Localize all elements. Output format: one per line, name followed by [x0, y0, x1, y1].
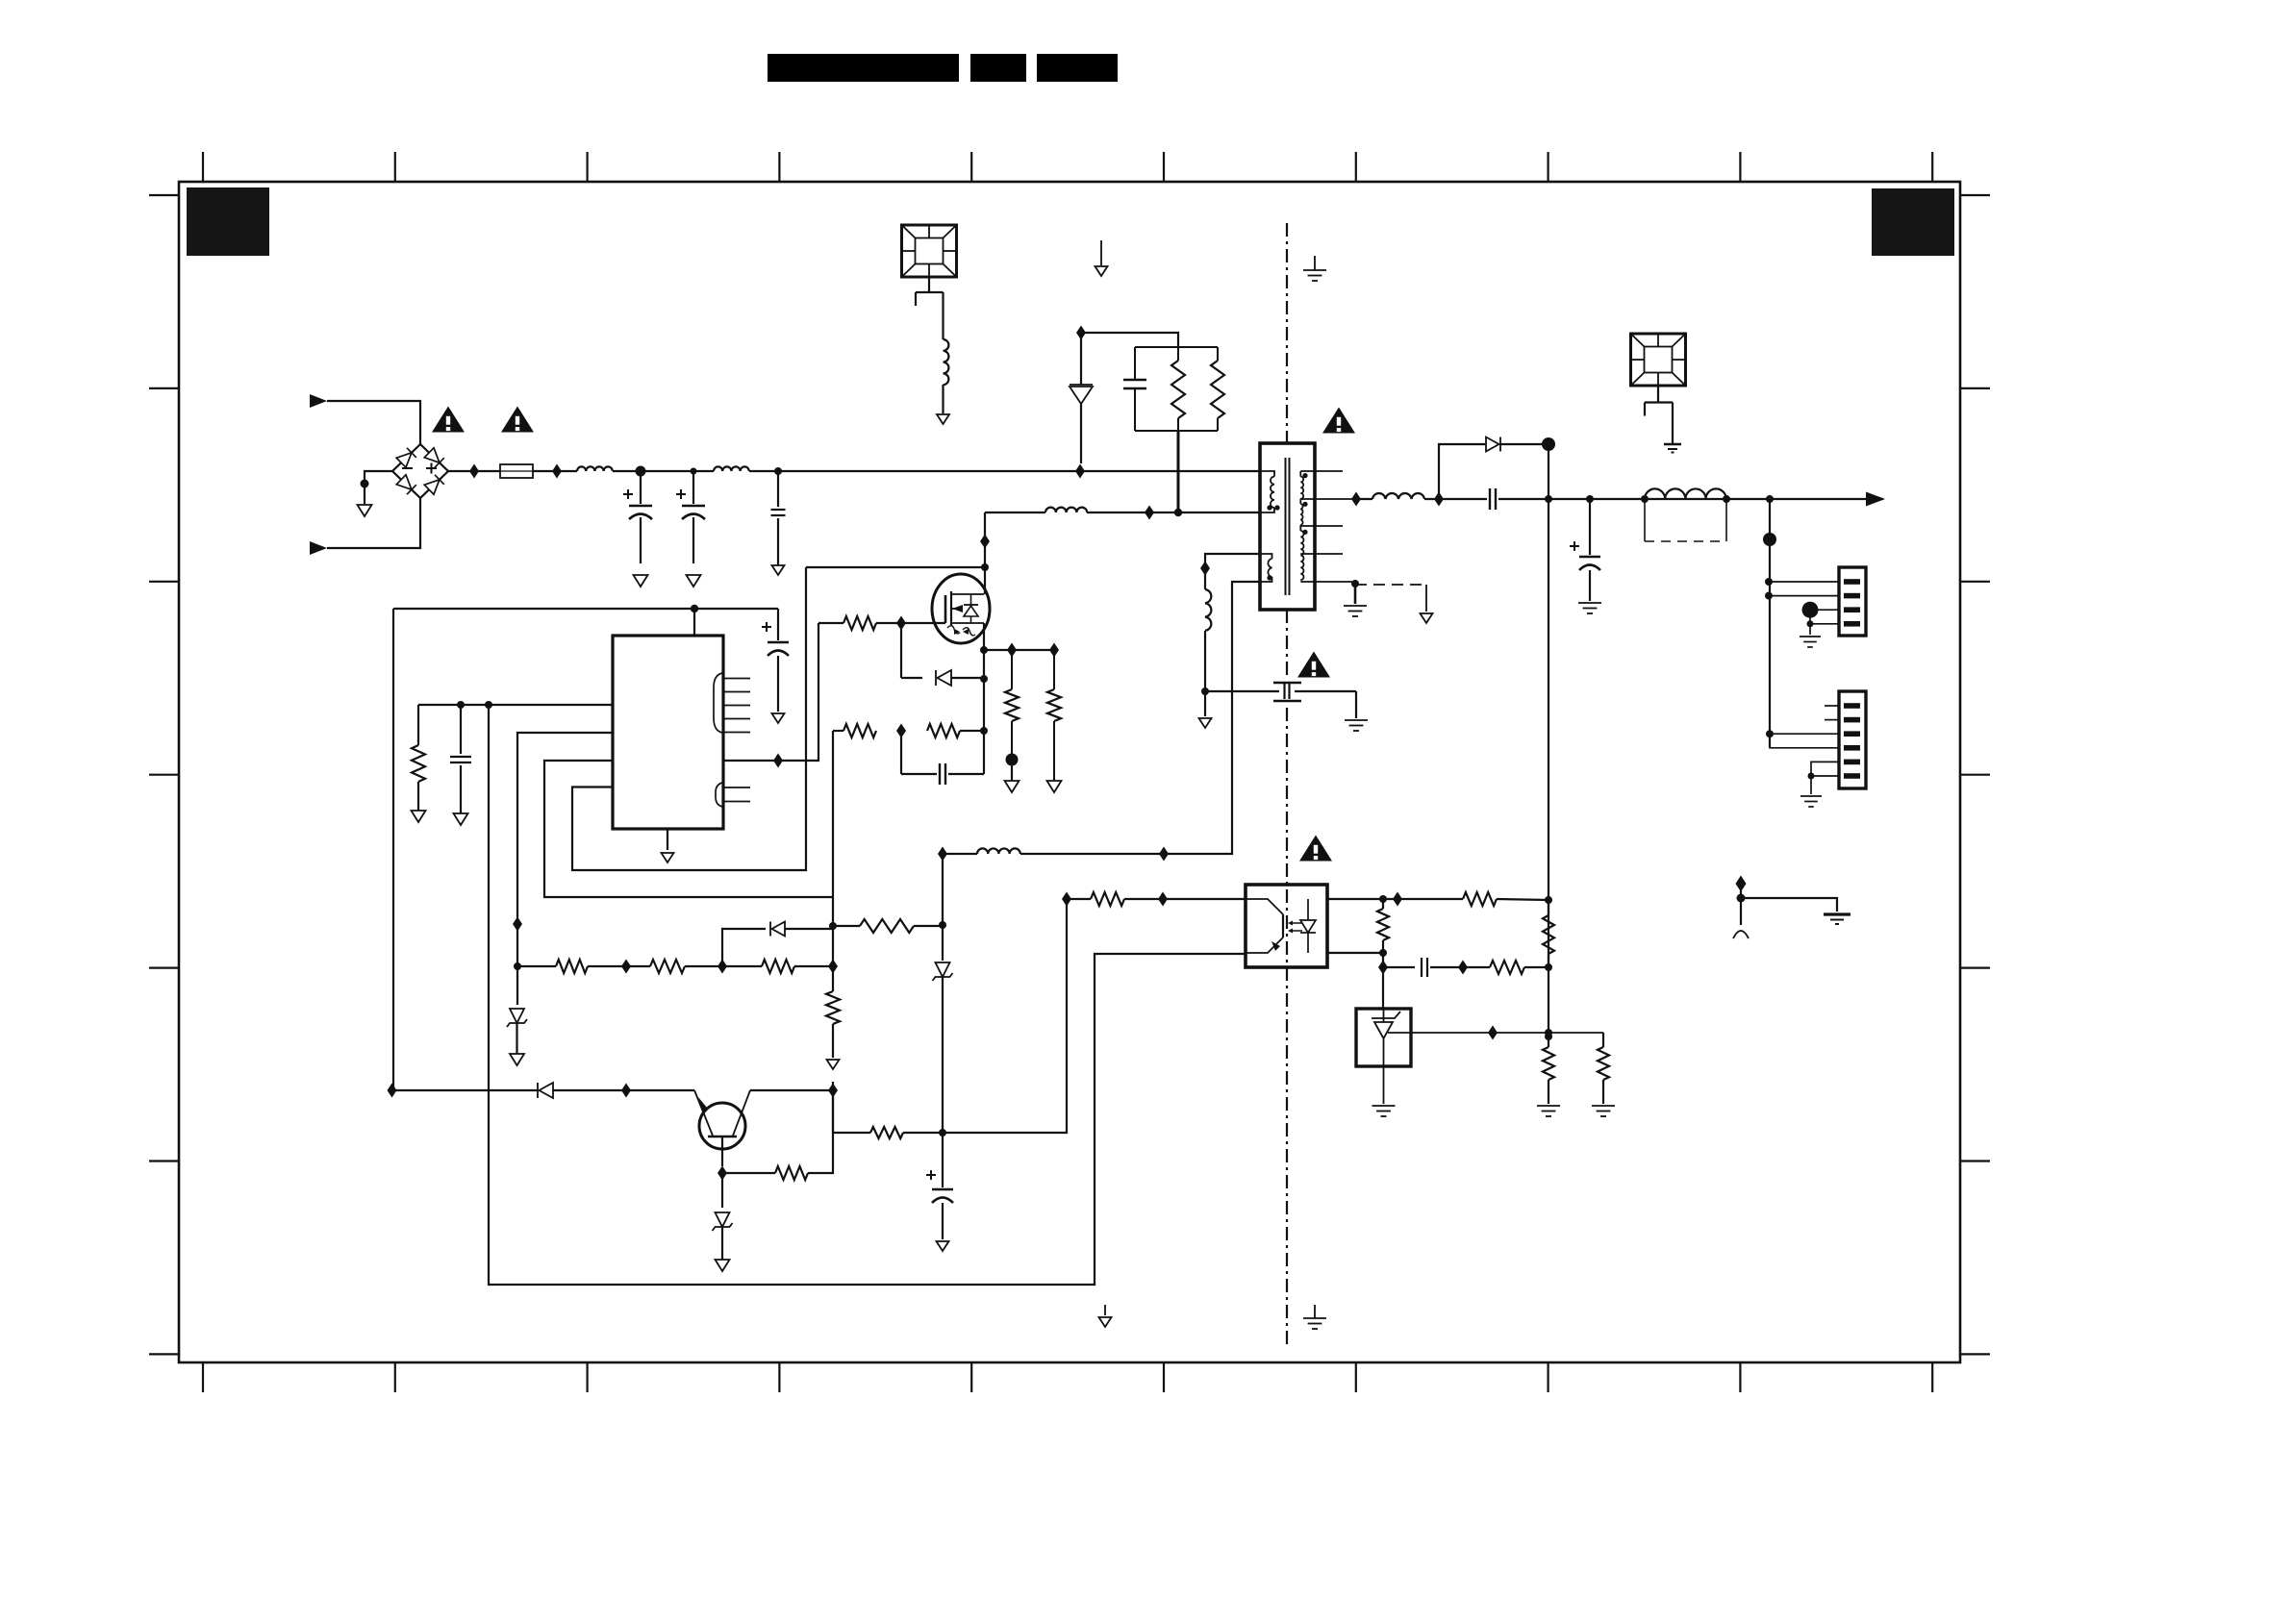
SG1 lead with tap	[928, 277, 930, 292]
cap C6	[942, 1133, 944, 1187]
ground arrow stub	[1421, 613, 1433, 623]
base resistor R7 row	[722, 1172, 775, 1174]
opto right bottom wire	[1327, 952, 1383, 954]
base lead down	[721, 1137, 723, 1166]
ground arrow (bridge minus)	[358, 505, 372, 516]
divider resistor R18	[1543, 1047, 1554, 1080]
startup resistor R6	[417, 705, 419, 745]
opto transistor	[1246, 899, 1283, 914]
title redaction bars	[768, 54, 959, 82]
wire	[1382, 953, 1384, 1009]
chassis arrow bottom	[1104, 1305, 1106, 1315]
wire	[685, 965, 762, 967]
inductor L7	[1372, 493, 1424, 499]
earth ground standoff	[1824, 912, 1850, 915]
startup chain row (y=1005)	[517, 965, 556, 967]
IC pin4 net (to drain)	[572, 567, 806, 870]
earth ground R18	[1537, 1105, 1560, 1107]
electrolytic cap C2	[676, 493, 686, 495]
resistor R16	[1490, 961, 1524, 974]
J1 leads	[1769, 581, 1839, 583]
warning triangle (mains 2)	[501, 407, 534, 433]
earth ground C7	[1345, 719, 1368, 721]
wire	[553, 1089, 694, 1091]
wire	[833, 925, 860, 927]
wire	[1124, 898, 1246, 900]
primary phase dots	[1267, 505, 1271, 510]
ground arrow ZD1	[510, 1054, 524, 1065]
output cap C9	[1589, 499, 1591, 555]
ground arrow C6	[937, 1241, 949, 1251]
row y=1178	[833, 1132, 870, 1134]
snubber center tap (bold)	[1177, 431, 1180, 512]
zener ZD3	[936, 962, 950, 977]
inductor L4	[1045, 508, 1087, 512]
TL431 U3	[1356, 1009, 1411, 1066]
wire	[794, 965, 833, 967]
resistor R10	[762, 960, 794, 973]
opto drive row	[1062, 892, 1071, 907]
earth ground J1	[1800, 636, 1821, 637]
left rail from VCC row	[392, 609, 394, 1090]
warning triangle (Y-cap)	[1297, 652, 1330, 678]
vertical to lower loop	[943, 899, 1067, 1133]
light arrows	[1293, 922, 1302, 924]
output inductor L8	[1645, 488, 1726, 499]
IC right pins group2	[723, 787, 750, 788]
warning triangle (transformer)	[1322, 408, 1355, 434]
sense resistor R4	[1011, 650, 1013, 689]
dashed return stub	[1355, 584, 1426, 586]
wire	[1081, 333, 1178, 347]
inductor L5	[977, 848, 1020, 854]
diode D4	[537, 1083, 539, 1098]
node diamond snubber top	[1076, 326, 1086, 340]
snubber resistor R1	[1177, 347, 1179, 361]
wire	[327, 401, 420, 444]
MOSFET Q1 (circle)	[932, 574, 990, 643]
bridge rectifier D1	[392, 444, 448, 498]
inductor L6	[1205, 589, 1211, 631]
MOSFET internals	[944, 595, 947, 623]
ground arrow C1	[634, 575, 648, 587]
earth ground (secondary, top)	[1314, 256, 1316, 270]
bridge polarity marks	[402, 467, 413, 469]
opto bias resistor R15	[1382, 899, 1384, 909]
warning triangle (mains 1)	[432, 407, 465, 433]
vertical resistor R17	[1543, 915, 1554, 954]
IC bottom pin	[667, 829, 668, 850]
resistor R11	[826, 991, 840, 1024]
zener ZD1	[510, 1009, 524, 1023]
gate cap row	[900, 731, 902, 774]
connector J1	[1839, 567, 1866, 636]
output to J1 vertical	[1769, 499, 1771, 747]
feedback net vertical (pin1)	[489, 705, 1246, 1285]
wire	[1204, 631, 1206, 716]
divider resistor R19	[1602, 1033, 1604, 1047]
secondary phase dots	[1302, 473, 1307, 478]
earth ground SG2	[1664, 443, 1681, 446]
wire	[327, 498, 420, 548]
series cap C8	[1489, 488, 1491, 510]
bridge negative stub to ground	[365, 471, 392, 504]
inductor L1	[577, 466, 613, 471]
primary winding	[1260, 471, 1274, 477]
cap C5	[460, 705, 462, 754]
VCC top rail	[393, 608, 778, 610]
base row wire	[392, 1089, 539, 1091]
transistor Q2	[699, 1103, 745, 1149]
warning triangle (opto)	[1299, 836, 1332, 862]
corner index square top-left	[187, 187, 269, 256]
secondary taps	[1300, 470, 1343, 472]
earth ground secondary	[1344, 605, 1367, 607]
comp cap C10 row	[1383, 966, 1415, 968]
Y-capacitor C7	[1205, 690, 1279, 692]
pigtail	[1733, 931, 1749, 938]
earth ground bottom	[1314, 1305, 1316, 1318]
node diamond on HV bus	[1075, 464, 1085, 479]
resistor R14	[1397, 898, 1463, 900]
collector row	[750, 1089, 833, 1091]
zener ZD2	[721, 1173, 723, 1208]
ground arrow C5	[454, 813, 468, 825]
standoff node	[1736, 876, 1747, 892]
flyback diode D6	[1439, 444, 1485, 499]
core lines	[1285, 458, 1287, 595]
inductor L2	[714, 466, 749, 471]
ground arrow C2	[687, 575, 701, 587]
opto right top wire	[1327, 898, 1397, 900]
ground arrow ZD2	[716, 1260, 730, 1271]
corner index square top-right	[1872, 188, 1954, 256]
fuse F1	[500, 464, 533, 478]
wire	[914, 925, 943, 927]
sense arrows	[947, 626, 960, 634]
snubber cap C3	[1134, 347, 1136, 380]
wire	[588, 965, 650, 967]
arrow node	[827, 1060, 840, 1069]
X-cap C11 to chassis	[777, 471, 779, 507]
spark gap SG2	[1631, 334, 1686, 386]
gate divider row	[833, 730, 843, 732]
ground arrow C4	[772, 713, 785, 723]
opto LED	[1307, 899, 1309, 920]
gate clamp diode D3	[900, 623, 902, 678]
snubber network rails	[1135, 346, 1218, 348]
resistor R9	[650, 960, 685, 973]
chassis arrow (primary common, top)	[1100, 240, 1102, 265]
sense resistor R5	[1053, 650, 1055, 689]
electrolytic cap C1	[623, 493, 633, 495]
TL431 anode ground	[1383, 1066, 1385, 1104]
earth ground R19	[1592, 1105, 1615, 1107]
aux supply vertical x980	[938, 847, 947, 862]
AC line input arrow (top)	[310, 394, 327, 408]
feed diode D5 row	[722, 929, 766, 966]
IC left pin 1 row	[418, 704, 613, 706]
body diode	[970, 594, 972, 605]
ground arrow aux	[1199, 718, 1212, 728]
resistor R12	[860, 919, 914, 933]
IC right pins group1	[723, 678, 750, 680]
IC pin3 net	[544, 761, 833, 897]
IC right pin (sense)	[723, 623, 818, 761]
aux phase dot	[1267, 575, 1271, 580]
gate wire	[901, 622, 945, 624]
output arrow	[1866, 492, 1885, 507]
snubber diode D2	[1080, 333, 1082, 385]
ground arrow R4	[1005, 781, 1020, 792]
aux winding	[1260, 554, 1272, 559]
earth ground C9	[1578, 602, 1601, 604]
AC line input arrow (bottom)	[310, 541, 327, 555]
optocoupler U2	[1246, 885, 1327, 967]
source node wire	[983, 623, 985, 650]
drain feed row (to IC pin)	[806, 566, 985, 568]
earth ground J2	[1800, 795, 1822, 797]
ground arrow SG1	[937, 414, 949, 424]
isolation barrier lower	[1286, 708, 1288, 1344]
frame tick marks	[202, 152, 204, 182]
transformer T1 box	[1260, 443, 1315, 610]
J2 leads	[1825, 705, 1839, 707]
ground arrow R5	[1047, 781, 1062, 792]
secondary bottom return	[1351, 580, 1359, 587]
connector J2	[1839, 691, 1866, 788]
wire to transformer primary	[1087, 512, 1260, 513]
IC U1 (controller)	[613, 636, 723, 829]
wire	[1020, 582, 1260, 854]
wire	[1498, 498, 1883, 500]
output row	[1351, 492, 1361, 507]
drain row wire	[985, 512, 1045, 513]
resistor R13	[1091, 892, 1124, 906]
aux top lead	[1205, 554, 1260, 589]
ground arrow R6	[412, 811, 426, 822]
node diamond	[388, 1084, 397, 1098]
gate resistor R3	[818, 622, 843, 624]
wire	[942, 385, 944, 413]
drawing frame	[179, 182, 1960, 1362]
ref line	[1388, 1032, 1603, 1034]
wire	[533, 470, 577, 472]
aux winding feed row	[943, 853, 977, 855]
source sense row	[984, 649, 1054, 651]
snubber resistor R2	[1217, 347, 1219, 361]
secondary winding	[1299, 471, 1301, 477]
spark gap SG1	[902, 225, 957, 277]
x866 vertical chain	[832, 731, 834, 966]
feedback tap vertical	[1548, 444, 1549, 1033]
node: bridge + output	[448, 470, 500, 472]
drain drop wire	[984, 512, 986, 594]
isolation barrier mid	[1286, 610, 1288, 678]
HV bus wire to transformer	[749, 470, 1260, 472]
inductor L3 (vertical)	[944, 339, 949, 385]
IC pin2 net	[517, 733, 613, 966]
resistor R8	[556, 960, 588, 973]
isolation barrier (dash-dot) top	[1286, 223, 1288, 443]
wire / junction	[613, 470, 714, 472]
wire	[1424, 498, 1487, 500]
VCC cap C4	[777, 609, 779, 640]
